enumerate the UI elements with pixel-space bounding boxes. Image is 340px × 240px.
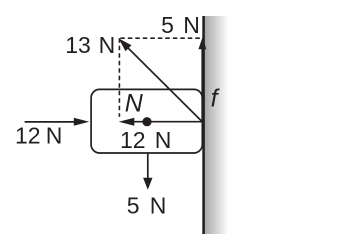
svg-text:12N: 12N [15,122,62,148]
force arrow 12 N leftward inside block [119,118,202,126]
svg-text:13N: 13N [65,32,115,58]
wall shading gradient [205,16,229,234]
block (rounded box against wall) [91,89,202,153]
application point dot [142,117,151,126]
force arrow 5 N up along wall [198,38,206,121]
svg-text:5N: 5N [161,12,200,38]
dashed horizontal construction line (top) [120,37,202,39]
force arrow 5 N down below block [143,154,152,190]
wall line [202,16,205,234]
applied force arrow 12 N rightward (outside block) [25,118,90,126]
force arrow 13 N (diagonal resultant) [119,38,202,121]
dashed vertical construction line [118,38,120,117]
svg-text:5N: 5N [127,193,167,219]
svg-text:N: N [125,90,144,118]
